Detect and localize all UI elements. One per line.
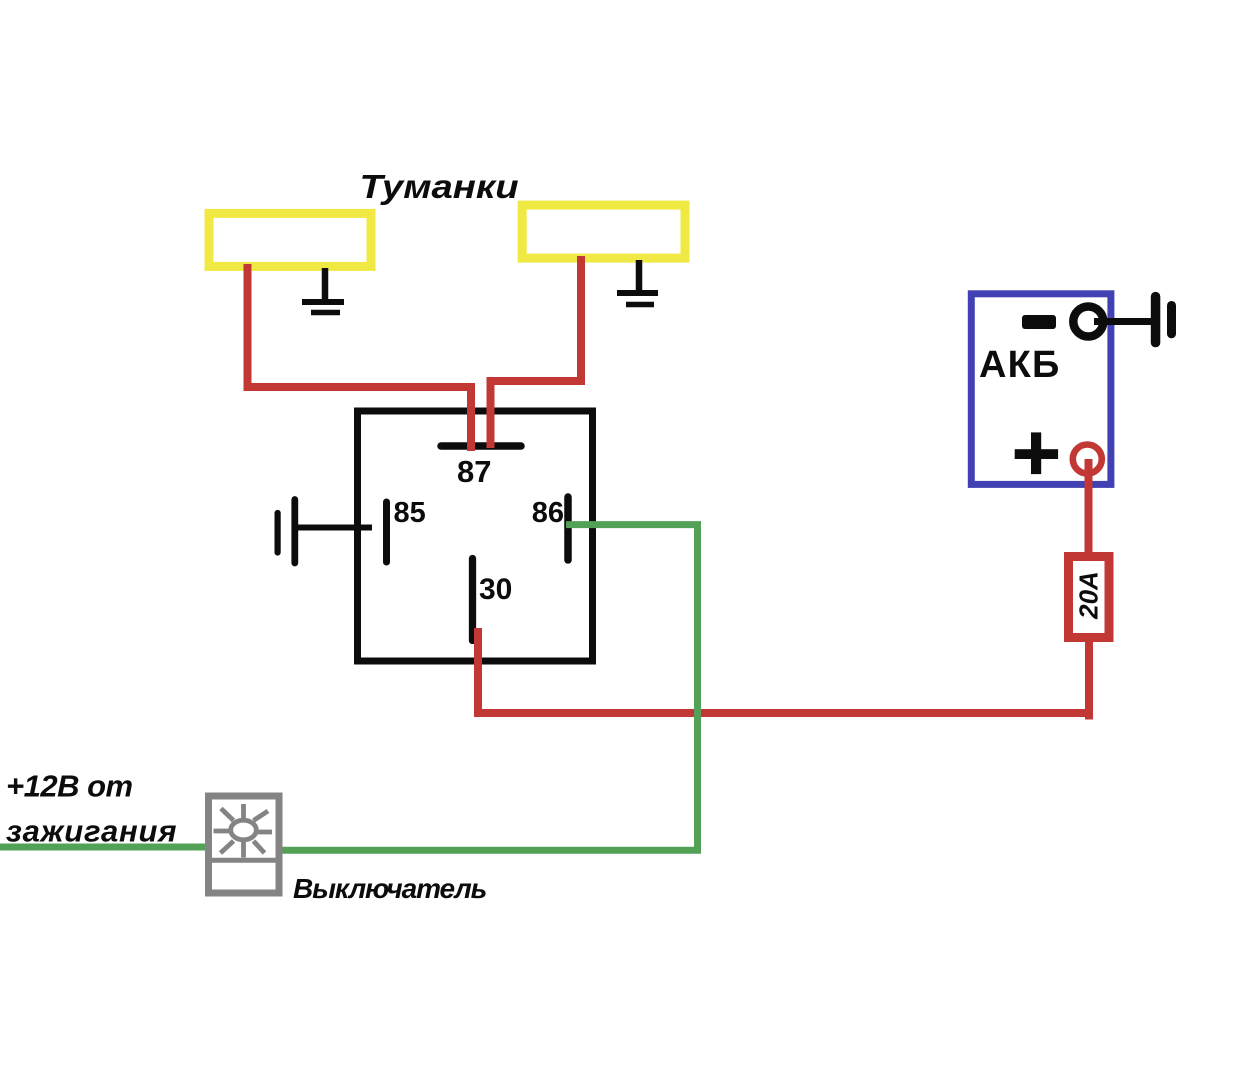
svg-text:зажигания: зажигания	[6, 814, 177, 849]
svg-text:+12В от: +12В от	[6, 769, 133, 804]
svg-text:30: 30	[479, 573, 512, 606]
svg-text:87: 87	[457, 454, 491, 489]
svg-text:АКБ: АКБ	[979, 344, 1061, 386]
svg-text:Выключатель: Выключатель	[293, 873, 486, 904]
svg-text:85: 85	[394, 497, 426, 529]
svg-text:20А: 20А	[1074, 571, 1104, 620]
svg-text:86: 86	[532, 497, 564, 529]
svg-text:Туманки: Туманки	[360, 168, 519, 205]
